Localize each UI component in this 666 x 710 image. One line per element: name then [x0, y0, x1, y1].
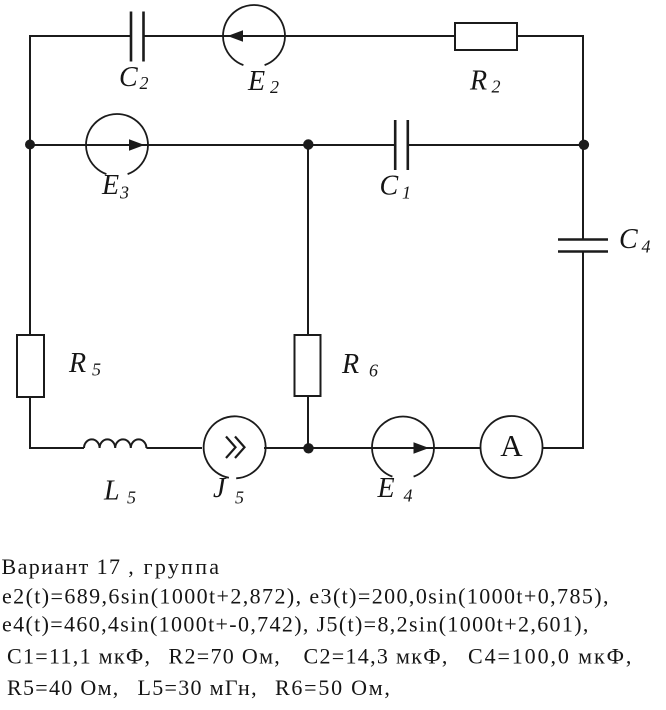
svg-text:C: C [619, 224, 638, 255]
svg-text:E: E [247, 66, 265, 97]
svg-text:e2(t)=689,6sin(1000t+2,872), e: e2(t)=689,6sin(1000t+2,872), e3(t)=200,0… [2, 584, 610, 609]
svg-text:L5=30 мГн,: L5=30 мГн, [138, 675, 258, 700]
svg-text:C4=100,0 мкФ,: C4=100,0 мкФ, [468, 644, 633, 669]
svg-text:R: R [341, 349, 359, 380]
svg-text:2: 2 [492, 77, 501, 97]
svg-text:R: R [68, 348, 86, 379]
svg-text:2: 2 [140, 73, 149, 93]
svg-text:4: 4 [404, 486, 413, 506]
svg-text:e4(t)=460,4sin(1000t+-0,742),: e4(t)=460,4sin(1000t+-0,742), J5(t)=8,2s… [2, 612, 590, 637]
svg-text:R2=70 Ом,: R2=70 Ом, [169, 644, 282, 669]
svg-text:R5=40 Ом,: R5=40 Ом, [7, 675, 120, 700]
svg-text:C: C [119, 62, 138, 93]
svg-text:C1=11,1 мкФ,: C1=11,1 мкФ, [7, 644, 151, 669]
svg-text:E: E [377, 473, 395, 504]
svg-text:5: 5 [235, 488, 244, 508]
svg-text:E: E [101, 170, 119, 201]
svg-text:1: 1 [402, 183, 411, 203]
svg-text:4: 4 [642, 237, 651, 257]
svg-text:C: C [380, 171, 399, 202]
svg-text:группа: группа [144, 554, 222, 579]
svg-text:R: R [469, 66, 487, 97]
svg-text:3: 3 [119, 183, 129, 203]
svg-text:6: 6 [369, 361, 378, 381]
svg-text:A: A [500, 428, 523, 463]
svg-text:C2=14,3 мкФ,: C2=14,3 мкФ, [304, 644, 449, 669]
svg-text:2: 2 [270, 77, 279, 97]
svg-text:L: L [103, 476, 120, 507]
svg-text:5: 5 [127, 488, 136, 508]
svg-text:Вариант 17 ,: Вариант 17 , [2, 554, 136, 579]
svg-text:5: 5 [92, 360, 101, 380]
svg-text:J: J [213, 473, 227, 504]
svg-text:R6=50 Ом,: R6=50 Ом, [275, 675, 392, 700]
